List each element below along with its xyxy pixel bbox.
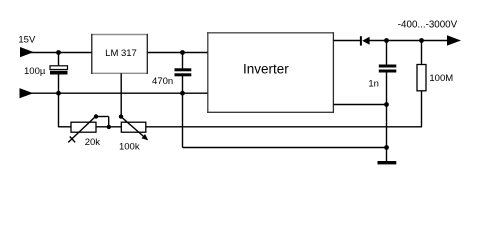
svg-text:100M: 100M [429,73,453,84]
svg-text:20k: 20k [85,137,101,148]
svg-text:470n: 470n [152,76,173,87]
svg-text:100k: 100k [119,141,140,152]
svg-text:-400...-3000V: -400...-3000V [398,20,458,31]
svg-text:100µ: 100µ [24,66,46,77]
svg-text:1n: 1n [368,79,379,90]
svg-text:LM 317: LM 317 [105,48,137,59]
svg-text:15V: 15V [18,35,36,46]
svg-text:Inverter: Inverter [243,62,289,77]
